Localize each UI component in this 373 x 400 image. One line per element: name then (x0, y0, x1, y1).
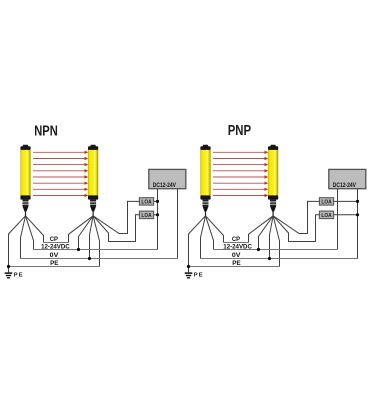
wire DC supply right pin (NPN) (177, 189, 179, 259)
junction dot PNP 0V (268, 257, 271, 260)
svg-text:PE: PE (232, 260, 241, 267)
junction dot PNP PE/ground (187, 265, 190, 268)
svg-text:PE: PE (14, 272, 24, 278)
wire NPN transmitter PE to ground (9, 216, 26, 273)
PNP transmitter tower yellow body (200, 150, 210, 196)
svg-text:DC12-24V: DC12-24V (153, 182, 177, 189)
beam arrow 3 (33, 163, 88, 166)
0V bus line (PNP) (201, 258, 358, 260)
wire PNP receiver CP (249, 216, 274, 243)
beam arrow 2 (213, 157, 268, 160)
wire NPN receiver 12-24VDC (79, 216, 94, 250)
junction dot NPN LOA1 rail (156, 200, 159, 203)
junction dot NPN 0V (88, 257, 91, 260)
svg-text:CP: CP (50, 236, 59, 243)
wire PNP receiver 0V (270, 216, 274, 259)
beam arrow 5 (33, 175, 88, 178)
beam arrow 8 (213, 194, 268, 197)
wire PNP receiver 12-24VDC (259, 216, 274, 250)
wire PNP receiver OSSD1 to LOA1 (273, 201, 319, 233)
svg-text:PE: PE (50, 260, 59, 267)
0V bus line (NPN) (21, 258, 178, 260)
PNP transmitter tower cone (203, 206, 209, 211)
NPN transmitter tower bottom cap (20, 195, 30, 199)
svg-text:12-24VDC: 12-24VDC (41, 243, 70, 250)
svg-text:NPN: NPN (34, 123, 58, 139)
PNP receiver tower cable stub (272, 212, 274, 216)
wire PNP receiver OSSD2 to LOA2 (273, 215, 319, 242)
wire NPN transmitter CP (26, 216, 44, 243)
svg-text:DC12-24V: DC12-24V (333, 182, 357, 189)
power supply DC12-24V (PNP) (329, 169, 366, 188)
junction dot PNP LOA1 rail (356, 200, 359, 203)
wire DC supply left pin (PNP) (337, 189, 339, 250)
NPN receiver tower yellow body (88, 150, 98, 196)
12-24VDC bus line (PNP) (214, 249, 338, 251)
PNP receiver tower top cap (268, 146, 278, 150)
svg-text:LOA: LOA (141, 200, 151, 206)
CP bus line (NPN) (44, 242, 69, 244)
junction dot PNP LOA2 rail (356, 213, 359, 216)
wire NPN receiver OSSD2 to LOA2 (93, 215, 139, 242)
wire PNP transmitter CP (206, 216, 224, 243)
wire LOA2 to supply rail (NPN) (154, 214, 158, 216)
wire PNP receiver PE (273, 216, 279, 267)
svg-text:LOA: LOA (321, 200, 331, 206)
NPN transmitter tower cable stub (25, 212, 27, 216)
svg-text:LOA: LOA (141, 213, 151, 219)
PNP receiver tower yellow body (268, 150, 278, 196)
wire DC supply right pin (PNP) (357, 189, 359, 259)
NPN receiver tower top cap (88, 146, 98, 150)
PNP transmitter tower cable connector (203, 200, 209, 207)
beam arrow 8 (33, 194, 88, 197)
CP bus line (PNP) (224, 242, 249, 244)
wire NPN receiver OSSD1 to LOA1 (93, 201, 139, 233)
NPN transmitter tower top bump (23, 145, 28, 147)
beam arrow 4 (33, 169, 88, 172)
wire PNP transmitter 12-24VDC (206, 216, 214, 250)
beam arrow 1 (33, 151, 88, 154)
wire NPN transmitter 12-24VDC (26, 216, 34, 250)
beam arrow 6 (33, 182, 88, 185)
wire PNP transmitter PE to ground (189, 216, 206, 273)
PNP transmitter tower top cap (200, 146, 210, 150)
NPN receiver tower top bump (91, 145, 96, 147)
svg-text:0V: 0V (50, 252, 59, 259)
load box LOA2 (NPN) (139, 211, 153, 219)
load box LOA1 (NPN) (139, 198, 153, 206)
beam arrow 7 (213, 188, 268, 191)
PNP receiver tower cable connector (270, 200, 276, 207)
ground symbol (NPN) (5, 273, 13, 278)
ground symbol (PNP) (185, 273, 193, 278)
wire LOA2 to supply rail (PNP) (334, 214, 358, 216)
PNP receiver tower top bump (271, 145, 276, 147)
junction dot NPN PE/ground (7, 265, 10, 268)
PNP transmitter tower bottom cap (200, 195, 210, 199)
svg-text:PE: PE (194, 272, 204, 278)
wire LOA1 to supply rail (NPN) (154, 200, 158, 202)
wire PNP transmitter 0V (201, 216, 206, 259)
beam arrow 1 (213, 151, 268, 154)
PE bus line (PNP) (189, 266, 280, 268)
junction dot NPN VDC (77, 248, 80, 251)
NPN transmitter tower top cap (20, 146, 30, 150)
NPN receiver tower cable stub (92, 212, 94, 216)
svg-text:0V: 0V (232, 252, 241, 259)
svg-text:CP: CP (232, 236, 241, 243)
12-24VDC bus line (NPN) (34, 249, 158, 251)
NPN transmitter tower cable connector (23, 200, 29, 207)
junction dot NPN LOA2 rail (156, 213, 159, 216)
NPN transmitter tower yellow body (20, 150, 30, 196)
beam arrow 7 (33, 188, 88, 191)
wire NPN transmitter 0V (21, 216, 26, 259)
beam arrow 6 (213, 182, 268, 185)
NPN receiver tower cone (90, 206, 96, 211)
beam arrow 5 (213, 175, 268, 178)
PNP receiver tower cone (270, 206, 276, 211)
PNP transmitter tower top bump (203, 145, 208, 147)
beam arrow 2 (33, 157, 88, 160)
wire LOA1 to supply rail (PNP) (334, 200, 358, 202)
power supply DC12-24V (NPN) (149, 169, 186, 188)
beam arrow 3 (213, 163, 268, 166)
load box LOA1 (PNP) (319, 198, 333, 206)
load box LOA2 (PNP) (319, 211, 333, 219)
svg-text:12-24VDC: 12-24VDC (223, 243, 252, 250)
wire NPN receiver CP (69, 216, 94, 243)
NPN receiver tower cable connector (90, 200, 96, 207)
wire NPN receiver PE (93, 216, 99, 267)
PNP receiver tower bottom cap (268, 195, 278, 199)
NPN transmitter tower cone (23, 206, 29, 211)
beam arrow 4 (213, 169, 268, 172)
wire DC supply left pin (NPN) (157, 189, 159, 250)
PNP transmitter tower cable stub (205, 212, 207, 216)
svg-text:PNP: PNP (228, 123, 252, 139)
wire NPN receiver 0V (90, 216, 94, 259)
junction dot PNP VDC (257, 248, 260, 251)
PE bus line (NPN) (9, 266, 100, 268)
NPN receiver tower bottom cap (88, 195, 98, 199)
svg-text:LOA: LOA (321, 213, 331, 219)
